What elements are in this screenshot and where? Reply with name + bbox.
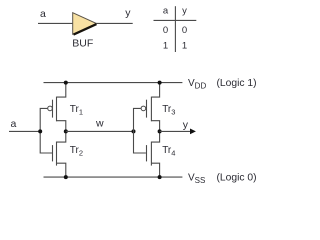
junction dot inverter 2 output node y bbox=[158, 129, 162, 133]
svg-text:VSS: VSS bbox=[188, 173, 205, 186]
svg-text:a: a bbox=[11, 118, 17, 130]
transistor Tr4 (NMOS) bbox=[147, 131, 160, 177]
svg-text:VDD: VDD bbox=[188, 78, 206, 91]
svg-text:0: 0 bbox=[163, 25, 168, 36]
svg-text:y: y bbox=[125, 7, 131, 19]
VSS power rail bbox=[44, 176, 183, 178]
wire gate bus inverter 2 bbox=[134, 108, 146, 153]
svg-text:y: y bbox=[182, 6, 187, 17]
svg-text:Tr3: Tr3 bbox=[162, 104, 175, 117]
wire output y (gate symbol) bbox=[96, 22, 133, 24]
svg-text:(Logic 0): (Logic 0) bbox=[217, 173, 257, 184]
transistor Tr2 (NMOS) bbox=[53, 131, 66, 177]
svg-text:a: a bbox=[163, 6, 169, 17]
svg-text:1: 1 bbox=[163, 41, 168, 52]
junction dot w/gate bus 2 bbox=[132, 129, 136, 133]
truth table vertical divider bbox=[174, 6, 176, 52]
transistor Tr1 (PMOS) bbox=[48, 83, 66, 132]
wire input a (circuit) bbox=[9, 130, 40, 132]
svg-text:1: 1 bbox=[182, 41, 187, 52]
svg-text:0: 0 bbox=[182, 25, 187, 36]
svg-text:y: y bbox=[183, 119, 189, 131]
svg-text:w: w bbox=[95, 118, 104, 130]
junction dot Tr2 source to VSS bbox=[64, 175, 68, 179]
transistor Tr3 (PMOS) bbox=[141, 83, 160, 132]
svg-text:Tr2: Tr2 bbox=[70, 145, 83, 158]
svg-text:(Logic 1): (Logic 1) bbox=[217, 78, 257, 89]
junction dot Tr1 drain to VDD bbox=[64, 81, 68, 85]
svg-text:BUF: BUF bbox=[72, 38, 93, 50]
output arrowhead bbox=[190, 129, 196, 135]
junction dot inverter 1 output node w bbox=[64, 129, 68, 133]
junction dot Tr4 source to VSS bbox=[158, 175, 162, 179]
svg-text:Tr4: Tr4 bbox=[162, 145, 175, 158]
wire output y (circuit) bbox=[160, 130, 191, 132]
truth table horizontal divider bbox=[154, 19, 197, 21]
wire node w bbox=[66, 130, 134, 132]
svg-text:a: a bbox=[40, 8, 46, 20]
wire input a (gate symbol) bbox=[38, 22, 73, 24]
wire gate bus inverter 1 bbox=[40, 108, 52, 153]
VDD power rail bbox=[44, 82, 183, 84]
junction dot Tr3 drain to VDD bbox=[158, 81, 162, 85]
svg-text:Tr1: Tr1 bbox=[70, 104, 83, 117]
junction dot input/gate bus 1 bbox=[38, 129, 42, 133]
buffer gate BUF triangle bbox=[73, 13, 97, 35]
